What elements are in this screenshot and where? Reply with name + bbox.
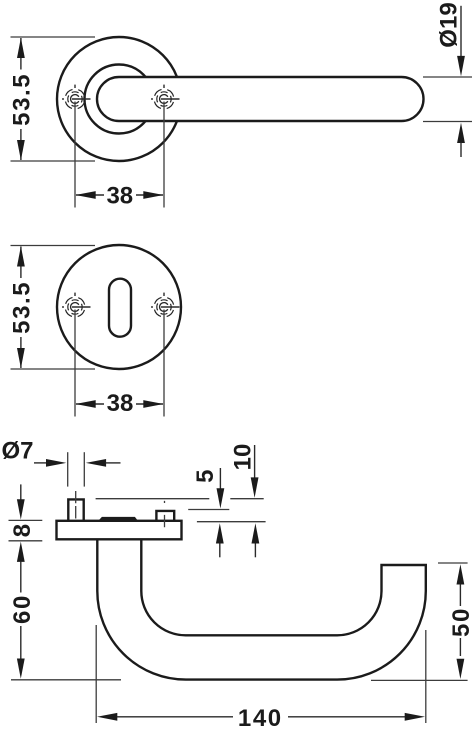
dim 140 dimension line + arrows: [97, 713, 425, 721]
dim 50 bottom extension line: [371, 679, 468, 681]
left screw centerline extension: [74, 310, 76, 417]
reference line A (left post top level): [96, 498, 264, 500]
dim 8 down arrow: [17, 484, 25, 519]
dim 38 (top view) dimension line + arrows: [75, 191, 163, 199]
keyhole slot: [109, 279, 131, 337]
svg-text:38: 38: [106, 183, 133, 210]
svg-text:5: 5: [192, 470, 219, 483]
svg-text:53.5: 53.5: [8, 73, 35, 126]
handle neck and grip outline: [97, 541, 426, 680]
svg-text:140: 140: [238, 705, 283, 730]
svg-text:Ø7: Ø7: [2, 438, 34, 465]
dim 5 down arrow: [217, 468, 225, 509]
dim 5 up arrow: [216, 523, 224, 557]
right screw hole symbol: [151, 293, 180, 317]
dim Ø19 extension line top: [423, 76, 472, 78]
dim 50 top extension line: [438, 562, 468, 564]
right fixing post: [156, 511, 174, 521]
dim Ø19 extension line bottom: [423, 121, 472, 123]
left screw hole symbol: [62, 293, 91, 317]
dim 10 up arrow: [252, 523, 260, 557]
svg-text:Ø19: Ø19: [436, 2, 463, 47]
svg-text:53.5: 53.5: [8, 281, 35, 334]
svg-text:8: 8: [9, 524, 36, 537]
dim 53.5 (top view) dimension line + arrows: [17, 38, 25, 161]
dim 140 right extension line: [425, 630, 427, 723]
lever handle bar (stadium outline): [97, 77, 424, 121]
dim Ø7 extension lines: [67, 452, 69, 486]
dim 50 dimension line + arrows: [457, 564, 465, 679]
dim 53.5 (middle view) extension line bottom: [11, 368, 96, 370]
dim 53.5 (middle view) dimension line + arrows: [17, 246, 25, 368]
dim 60 dimension line + arrows: [17, 542, 25, 679]
center bearing bump on flange: [99, 517, 137, 522]
dim 53.5 (top view) extension line top: [11, 36, 96, 38]
reference line C (flange top extended): [197, 521, 266, 523]
rose flange rectangle: [57, 521, 182, 540]
dim 10 down arrow: [251, 445, 259, 498]
dim 53.5 (top view) extension line bottom: [11, 160, 96, 162]
dim 8 extension lines: [9, 519, 43, 521]
dim 140 left extension line: [95, 625, 97, 723]
right screw centerline extension: [163, 102, 165, 208]
right screw hole symbol: [151, 85, 180, 109]
dim 60 bottom extension line: [11, 679, 121, 681]
left screw centerline extension: [74, 102, 76, 208]
dim 38 (middle view) dimension line + arrows: [75, 400, 163, 408]
left screw hole symbol: [62, 85, 91, 109]
right screw centerline extension: [163, 310, 165, 417]
left fixing post (Ø7): [68, 499, 83, 520]
svg-text:38: 38: [107, 390, 134, 417]
rose inner circle: [85, 65, 154, 134]
rose outer circle: [57, 37, 181, 161]
dim Ø19 dimension line + arrows: [457, 6, 465, 157]
dim Ø7 dimension line left + arrow: [34, 459, 121, 467]
dim 53.5 (middle view) extension line top: [11, 245, 96, 247]
escutcheon circle: [57, 245, 181, 369]
svg-text:60: 60: [9, 594, 36, 624]
right post dash-dot centerline: [164, 501, 166, 527]
reference line B (right post top level): [188, 509, 229, 511]
left post dash-dot centerline: [75, 491, 77, 519]
svg-text:50: 50: [448, 607, 472, 637]
svg-text:10: 10: [230, 444, 257, 471]
